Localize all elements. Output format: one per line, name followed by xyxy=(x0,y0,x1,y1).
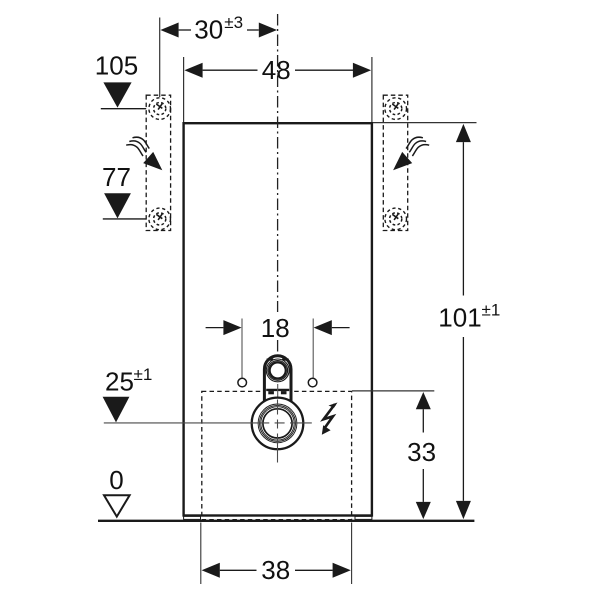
dim 18 xyxy=(206,313,350,343)
dim 30±3 extension xyxy=(159,18,161,98)
dim 18 extensions xyxy=(241,319,243,378)
level 25±1 xyxy=(103,365,153,422)
panel body xyxy=(184,123,372,515)
dim 48 extensions xyxy=(183,57,185,122)
connection box dashed xyxy=(202,391,352,519)
svg-text:101: 101 xyxy=(438,303,481,333)
svg-text:±1: ±1 xyxy=(134,365,153,384)
svg-text:77: 77 xyxy=(102,162,131,192)
svg-text:±3: ±3 xyxy=(224,13,243,32)
svg-text:25: 25 xyxy=(105,367,134,397)
level 77 xyxy=(102,162,146,219)
svg-text:±1: ±1 xyxy=(482,301,501,320)
dim 48 xyxy=(184,55,371,85)
level 0 xyxy=(104,465,130,517)
water supply bracket xyxy=(264,356,291,409)
panel foot left xyxy=(184,516,201,519)
dim 30±3 xyxy=(160,13,277,45)
anchor bottom-right xyxy=(385,208,407,230)
svg-text:38: 38 xyxy=(261,555,290,585)
anchor bottom-left xyxy=(149,208,171,230)
anchor box right xyxy=(383,95,407,230)
svg-text:33: 33 xyxy=(407,437,436,467)
svg-text:0: 0 xyxy=(109,465,123,495)
drain pipe circle xyxy=(252,398,304,450)
panel foot right xyxy=(355,516,372,519)
crosshair horizontal / level 25 line xyxy=(104,422,312,424)
squiggle arrow right xyxy=(393,137,429,170)
dim 101±1 xyxy=(438,124,500,519)
lightning bolt xyxy=(322,403,338,435)
level 105 xyxy=(95,51,146,109)
crosshair vertical xyxy=(277,400,279,463)
anchor box left xyxy=(146,95,170,230)
dim 101±1 extension xyxy=(373,122,477,124)
svg-text:105: 105 xyxy=(95,51,138,81)
floor line xyxy=(98,520,474,522)
dim 33 xyxy=(407,392,436,519)
dim 38 xyxy=(202,555,351,585)
ext line 33 top xyxy=(352,390,434,392)
svg-text:48: 48 xyxy=(262,55,291,85)
centre line xyxy=(277,14,279,357)
anchor top-left xyxy=(149,98,171,120)
dim 38 extensions xyxy=(200,523,202,585)
svg-text:18: 18 xyxy=(261,313,290,343)
fixing hole right xyxy=(308,378,317,387)
squiggle arrow left xyxy=(126,137,162,170)
svg-text:30: 30 xyxy=(194,15,223,45)
anchor top-right xyxy=(385,98,407,120)
fixing hole left xyxy=(238,378,247,387)
